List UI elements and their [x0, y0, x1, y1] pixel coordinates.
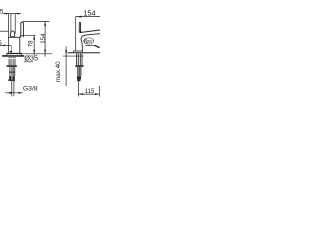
svg-text:115: 115 [85, 89, 95, 95]
svg-text:max.40: max.40 [55, 61, 62, 82]
svg-text:45: 45 [0, 9, 4, 16]
svg-text:G3/8: G3/8 [23, 85, 38, 92]
svg-text:154: 154 [83, 8, 96, 17]
svg-text:25°: 25° [87, 39, 94, 45]
svg-text:78: 78 [27, 40, 34, 47]
svg-text:154: 154 [40, 33, 47, 44]
svg-text:Ø35: Ø35 [24, 54, 38, 63]
svg-text:5: 5 [0, 40, 2, 47]
